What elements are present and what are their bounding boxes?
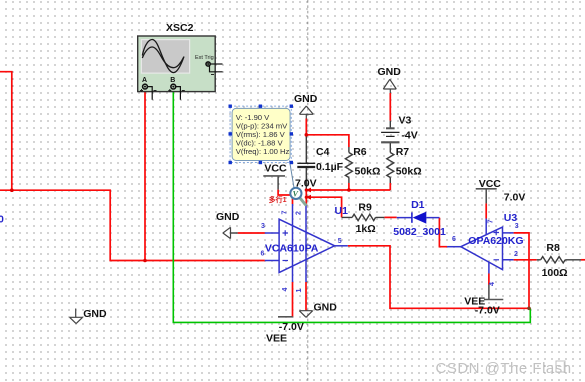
svg-text:GND: GND	[314, 302, 338, 314]
svg-text:0: 0	[0, 214, 4, 226]
svg-text:100Ω: 100Ω	[542, 267, 568, 279]
svg-text:7.0V: 7.0V	[504, 192, 526, 204]
svg-text:3: 3	[515, 223, 519, 230]
svg-text:7: 7	[488, 220, 495, 224]
svg-text:0.1µF: 0.1µF	[316, 161, 344, 173]
svg-text:3: 3	[261, 223, 265, 230]
svg-text:C4: C4	[316, 146, 330, 158]
svg-text:6: 6	[261, 251, 265, 258]
svg-text:B: B	[170, 77, 175, 84]
svg-text:U1: U1	[335, 205, 349, 217]
svg-text:CSDN @The Flash: CSDN @The Flash	[436, 360, 572, 377]
svg-text:VEE: VEE	[266, 333, 287, 345]
svg-text:GND: GND	[216, 211, 240, 223]
svg-text:1kΩ: 1kΩ	[356, 223, 376, 235]
svg-text:-7.0V: -7.0V	[279, 321, 304, 333]
svg-text:R6: R6	[353, 146, 367, 158]
svg-text:50kΩ: 50kΩ	[396, 165, 422, 177]
svg-text:5082_3001: 5082_3001	[393, 226, 446, 238]
svg-text:V: V	[293, 190, 299, 199]
svg-text:-4V: -4V	[401, 130, 417, 142]
svg-text:R9: R9	[358, 201, 372, 213]
svg-text:多行1: 多行1	[269, 195, 287, 204]
svg-text:50kΩ: 50kΩ	[355, 165, 381, 177]
svg-text:7: 7	[282, 211, 289, 215]
svg-text:V3: V3	[399, 115, 412, 127]
svg-text:A: A	[142, 77, 147, 84]
svg-text:R8: R8	[546, 242, 560, 254]
svg-text:V(freq): 1.00 Hz: V(freq): 1.00 Hz	[236, 147, 290, 156]
svg-text:4: 4	[282, 288, 289, 292]
svg-text:2: 2	[514, 251, 518, 258]
svg-text:5: 5	[338, 238, 342, 245]
svg-text:VCC: VCC	[479, 178, 502, 190]
svg-text:OPA620KG: OPA620KG	[468, 235, 523, 247]
svg-text:7.0V: 7.0V	[295, 178, 317, 190]
svg-text:D1: D1	[411, 199, 425, 211]
svg-text:VCA610PA: VCA610PA	[265, 243, 319, 255]
svg-text:GND: GND	[378, 66, 402, 78]
svg-text:R7: R7	[396, 146, 410, 158]
svg-text:VCC: VCC	[264, 163, 287, 175]
svg-text:1: 1	[296, 289, 303, 293]
svg-text:GND: GND	[83, 308, 107, 320]
svg-text:-7.0V: -7.0V	[475, 305, 500, 317]
svg-text:2: 2	[296, 211, 303, 215]
svg-text:Ext Trig: Ext Trig	[195, 55, 214, 61]
svg-text:XSC2: XSC2	[166, 22, 194, 34]
svg-text:GND: GND	[294, 93, 318, 105]
svg-text:6: 6	[452, 236, 456, 243]
svg-text:4: 4	[489, 282, 496, 286]
